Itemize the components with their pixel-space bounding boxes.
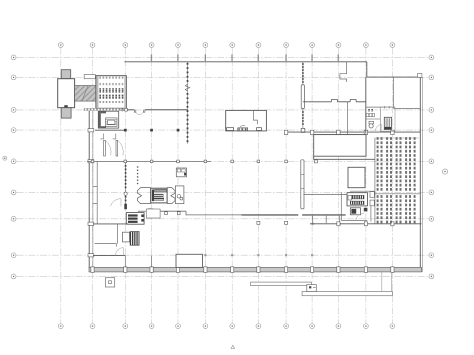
columns on wall y=132: [284, 130, 394, 134]
training room casework: [227, 128, 262, 131]
seating band rows: [99, 83, 124, 103]
grid bubbles left: [11, 55, 16, 279]
door jamb marks: [385, 106, 390, 108]
columns row7 small: [257, 221, 288, 224]
corridor columns: [91, 160, 287, 163]
west wall (double): [88, 111, 90, 268]
vestibule box: [146, 209, 160, 218]
top edge column ticks: [151, 54, 339, 62]
training room: [226, 110, 267, 130]
wall x=347.4: [346, 102, 348, 135]
stair treads: [106, 118, 118, 127]
margin items: [370, 192, 374, 198]
stubs to south band: [124, 256, 126, 268]
narrow shaft wall: [301, 160, 304, 209]
wall y=243.6: [95, 244, 117, 247]
restroom partitions: [379, 107, 381, 131]
upper small rooms: [176, 168, 186, 177]
corridor north wall right: [303, 193, 348, 195]
equipment G box: [151, 188, 167, 203]
wall y=108.5: [394, 108, 421, 110]
row8 column ticks: [204, 254, 313, 256]
walkway lower: [302, 292, 392, 296]
restroom west wall: [365, 77, 367, 133]
top-right step wall: [367, 62, 421, 77]
small marker bottom: [231, 345, 235, 348]
door leaf 1: [104, 140, 106, 156]
door leaf 2: [116, 140, 118, 156]
columns on wall y=223.8: [337, 222, 394, 226]
electrical boxes: [347, 193, 367, 206]
south wall band: [89, 267, 422, 272]
wall y=255.6: [93, 255, 125, 257]
west wall joint nodes: [88, 129, 94, 257]
rack room west wall: [374, 138, 376, 224]
west room partitions: [96, 161, 98, 224]
vanity counter cells: [368, 109, 374, 111]
door arc: [115, 248, 123, 256]
door arc: [376, 125, 382, 131]
tick line x=137.6: [137, 166, 138, 184]
grid column lines: [61, 48, 393, 324]
wall x=393.6: [393, 77, 395, 108]
wall y=132: [285, 131, 420, 133]
extra bubble left row5: [3, 156, 7, 160]
column at shaft top: [314, 160, 317, 163]
wall y=223.8 right: [310, 223, 422, 225]
rack aisle wall: [375, 193, 420, 195]
top-right corner notch: [418, 74, 422, 78]
dark columns row y=130: [124, 129, 179, 132]
elevator shaft: [384, 117, 391, 129]
conference room shell: [96, 76, 126, 109]
bottom-center room: [176, 254, 203, 267]
jamb boxes on vestibule wall: [153, 212, 180, 215]
equipment room chamfered outline: [137, 188, 150, 204]
corridor south wall mid (thick): [241, 214, 298, 216]
hatched band below room and above stair: [84, 108, 126, 110]
restroom top wall: [366, 106, 395, 108]
grid bubbles bottom: [58, 324, 394, 329]
door hooks below stair wall: [100, 134, 103, 139]
wall y=134.5: [314, 134, 366, 136]
wall y=101.8 with doors: [303, 101, 332, 103]
rack units: [377, 137, 416, 223]
south wall columns: [91, 267, 394, 273]
wall end node: [125, 108, 128, 111]
dock body: [58, 79, 75, 108]
room top hatched band: [99, 76, 125, 78]
corridor wall left: [87, 160, 211, 162]
operable partition wall x=187.5: [187, 62, 189, 144]
stair room outline: [98, 111, 118, 128]
grid row lines: [17, 57, 429, 276]
walkway link detail: [307, 285, 317, 292]
wall y=211 with door gap: [138, 210, 147, 212]
wall below stairs: [95, 129, 126, 131]
white room: [348, 167, 365, 187]
north interior wall with double door: [127, 109, 134, 111]
grid bubbles right: [429, 55, 434, 279]
toilet: [369, 121, 373, 124]
operable partition wall x=302.9: [302, 62, 304, 128]
hatched vestibule corridor: [75, 86, 97, 102]
door arc west room: [111, 199, 121, 207]
pad below building: [105, 278, 114, 287]
large room under wall y=134.5: [314, 135, 366, 157]
grid bubbles top: [58, 43, 394, 48]
copier cluster boxes: [126, 213, 144, 225]
room west wall: [340, 192, 342, 220]
ramp edges: [381, 272, 383, 292]
dock leveler mark: [64, 105, 67, 107]
stair thick walls: [98, 111, 106, 128]
walkway upper: [251, 282, 312, 286]
lower equipment: striped unit: [123, 232, 130, 242]
dock link top: [84, 75, 95, 79]
top edge wall: [124, 61, 366, 63]
floating detail bubble right: [442, 169, 447, 174]
right fixture room: [175, 186, 184, 204]
jog near top edge: [340, 62, 347, 82]
vertical x=117.6: [117, 224, 119, 244]
lower boxes: [350, 208, 360, 215]
wall y=223.9: [93, 223, 128, 225]
east wall (double): [419, 77, 421, 272]
dock top tab: [61, 70, 70, 79]
room side wall bands: [96, 76, 98, 108]
wall from room corner to corridor: [314, 156, 375, 159]
partition stack pocket: [301, 85, 304, 109]
room dividers below corridor: [312, 216, 314, 224]
dock bottom tab: [61, 108, 71, 118]
tick wall x=125.6: [125, 160, 127, 208]
